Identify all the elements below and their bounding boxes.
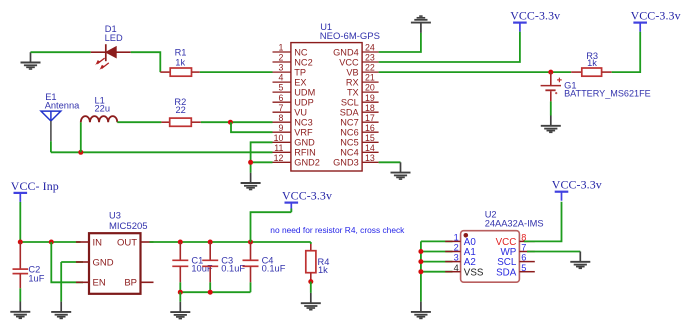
wire antenna pin down — [50, 141, 52, 152]
ground (below U3 GND) — [51, 302, 71, 319]
svg-text:4: 4 — [454, 263, 459, 273]
svg-text:RX: RX — [346, 77, 359, 87]
U1 pin 3 TP — [273, 63, 307, 78]
svg-text:0.1uF: 0.1uF — [262, 264, 286, 274]
U3 pin IN — [76, 237, 102, 248]
U1 pin 20 TX — [347, 83, 379, 98]
svg-text:21: 21 — [365, 73, 375, 83]
svg-text:UDM: UDM — [294, 87, 315, 97]
svg-text:5: 5 — [521, 263, 526, 273]
svg-text:NC5: NC5 — [340, 138, 358, 148]
ground (below R4) — [301, 293, 321, 310]
wire U1 pin 24 to ground — [379, 33, 421, 52]
wire U2 pin 1 — [421, 240, 453, 242]
wire R4 to ground — [310, 282, 312, 293]
wire U2 pin 2 — [421, 251, 453, 253]
svg-text:1k: 1k — [175, 57, 185, 67]
svg-text:EX: EX — [294, 77, 306, 87]
svg-text:15: 15 — [365, 133, 375, 143]
U3 pin BP — [124, 278, 153, 289]
U1 pin 23 VCC — [339, 53, 378, 68]
svg-text:2: 2 — [278, 53, 283, 63]
svg-text:R1: R1 — [175, 47, 187, 57]
U1 pin 17 NC7 — [340, 113, 378, 128]
U1 pin 6 UDP — [273, 93, 314, 108]
U1 pin 14 NC4 — [340, 143, 378, 158]
svg-text:NEO-6M-GPS: NEO-6M-GPS — [320, 31, 380, 42]
svg-text:18: 18 — [365, 103, 375, 113]
junction bus pin 3 — [418, 259, 423, 264]
wire junction up to L1 — [80, 122, 82, 152]
U2 pin 1 A0 — [445, 233, 476, 249]
svg-text:GND4: GND4 — [333, 47, 359, 57]
svg-text:20: 20 — [365, 83, 375, 93]
svg-text:GND: GND — [294, 138, 315, 148]
U1 pin 8 NC3 — [273, 113, 313, 128]
junction battery node — [548, 70, 553, 75]
svg-text:IN: IN — [93, 237, 103, 248]
U2 pin 5 SDA — [496, 263, 535, 279]
svg-text:17: 17 — [365, 113, 375, 123]
svg-text:23: 23 — [365, 53, 375, 63]
wire U1 pin 10 to ground bus — [251, 142, 273, 172]
wire input rail to U3 IN — [20, 241, 80, 243]
svg-text:LED: LED — [105, 33, 123, 43]
memory U2 24AA32A-IMS body — [461, 231, 520, 283]
svg-text:BP: BP — [124, 278, 137, 289]
svg-text:1: 1 — [454, 233, 459, 243]
svg-text:6: 6 — [521, 253, 526, 263]
svg-text:VCC-3.3v: VCC-3.3v — [552, 178, 602, 192]
wire U1 pin 12 to ground bus — [251, 161, 273, 163]
junction R4 bottom — [308, 279, 313, 284]
power flag VCC-3.3v (pin 23) — [510, 9, 560, 32]
svg-text:UDP: UDP — [294, 98, 313, 108]
U1 pin 24 GND4 — [333, 43, 378, 58]
wire U1 pin 22 to R3 — [379, 71, 572, 73]
ground (inverted, above U1) — [411, 16, 431, 33]
wire U2 pin 4 — [421, 271, 453, 273]
U1 pin 12 GND2 — [273, 153, 320, 168]
svg-text:NC: NC — [294, 47, 308, 57]
op-amp U1 NEO-6M-GPS body — [291, 43, 362, 171]
svg-text:16: 16 — [365, 123, 375, 133]
svg-text:22u: 22u — [95, 104, 111, 114]
capacitor C4 — [243, 242, 259, 282]
power flag VCC-3.3v (R3) — [631, 9, 681, 32]
svg-text:7: 7 — [521, 243, 526, 253]
wire rail to R4 — [310, 242, 312, 244]
ground (below C2) — [10, 302, 30, 319]
svg-text:10: 10 — [274, 133, 284, 143]
capacitor C2 — [13, 242, 29, 288]
svg-text:13: 13 — [365, 153, 375, 163]
junction R2 output node — [228, 120, 233, 125]
wire U3 GND — [61, 261, 83, 263]
svg-text:VCC-3.3v: VCC-3.3v — [510, 9, 560, 23]
U1 pin 1 NC — [273, 43, 308, 58]
battery G1 — [541, 72, 562, 101]
svg-text:VCC- Inp: VCC- Inp — [11, 179, 59, 193]
wire ground to D1 anode — [31, 51, 91, 53]
U3 pin OUT — [117, 237, 154, 248]
ground (right of U2) — [570, 252, 590, 269]
wire bottom cap rail — [180, 291, 250, 293]
U1 pin 16 NC6 — [340, 123, 378, 138]
U1 pin 18 SDA — [340, 103, 379, 118]
svg-text:SCL: SCL — [341, 98, 359, 108]
wire flag stem — [290, 209, 292, 213]
capacitor C3 — [202, 242, 218, 282]
wire to U3 EN — [51, 242, 83, 282]
svg-text:VRF: VRF — [294, 128, 313, 138]
U3 pin EN — [76, 278, 106, 289]
svg-text:NC6: NC6 — [340, 128, 358, 138]
wire R1 to U1 pin 3 — [200, 71, 273, 73]
regulator U3 MIC5205 body — [89, 233, 141, 294]
svg-text:22: 22 — [176, 105, 186, 115]
wire U2 pin 8 to VCC-3.3v — [524, 202, 562, 242]
svg-text:3: 3 — [278, 63, 283, 73]
U1 pin 11 RFIN — [273, 143, 316, 158]
svg-text:VSS: VSS — [464, 267, 484, 278]
svg-text:TX: TX — [347, 87, 359, 97]
svg-text:2: 2 — [454, 243, 459, 253]
svg-text:RFIN: RFIN — [294, 148, 315, 158]
wire R3 to VCC-3.3v — [612, 32, 641, 73]
svg-text:1: 1 — [278, 43, 283, 53]
svg-text:EN: EN — [93, 278, 106, 289]
U1 pin 21 RX — [346, 73, 379, 88]
U2 pin 4 VSS — [445, 263, 484, 279]
svg-text:0.1uF: 0.1uF — [221, 264, 245, 274]
svg-text:NC2: NC2 — [294, 57, 312, 67]
resistor R1 — [160, 68, 200, 76]
U1 pin 5 UDM — [273, 83, 316, 98]
junction ground bus — [248, 160, 253, 165]
svg-text:GND2: GND2 — [294, 158, 320, 168]
junction antenna/L1 node — [78, 150, 83, 155]
junction C1 bottom — [178, 290, 183, 295]
svg-text:11: 11 — [274, 143, 283, 153]
ground (below G1) — [541, 116, 561, 133]
resistor R2 — [161, 118, 200, 126]
svg-text:14: 14 — [365, 143, 375, 153]
svg-text:5: 5 — [278, 83, 283, 93]
U1 pin 4 EX — [273, 73, 307, 88]
svg-text:VB: VB — [346, 67, 358, 77]
U1 pin 19 SCL — [341, 93, 379, 108]
wire OUT rail — [150, 241, 311, 243]
svg-text:VCC: VCC — [339, 57, 359, 67]
U1 pin 13 GND3 — [333, 153, 378, 168]
svg-text:12: 12 — [274, 153, 284, 163]
ground (left of D1) — [21, 52, 41, 69]
wire C2 to ground — [19, 288, 21, 301]
wire branch to U1 pin 9 — [231, 122, 273, 132]
wire U3 GND down — [60, 262, 62, 302]
ground (right of U1 pin 13) — [391, 162, 411, 179]
svg-text:NC7: NC7 — [340, 118, 358, 128]
svg-text:no need for resistor R4, cross: no need for resistor R4, cross check — [270, 225, 405, 235]
svg-text:3: 3 — [454, 253, 459, 263]
svg-text:1uF: 1uF — [28, 273, 44, 283]
ground (below U2 bus) — [411, 302, 431, 319]
resistor R4 — [306, 244, 316, 282]
svg-text:VU: VU — [294, 108, 307, 118]
svg-text:1k: 1k — [587, 58, 597, 68]
U1 pin 15 NC5 — [340, 133, 378, 148]
svg-text:Antenna: Antenna — [45, 101, 80, 111]
U2 pin 2 A1 — [445, 243, 476, 259]
svg-text:VCC-3.3v: VCC-3.3v — [631, 9, 681, 23]
wire U1 pin 23 to VCC-3.3v — [379, 32, 520, 62]
ground (below C1) — [170, 302, 190, 319]
junction C4/VCC top — [248, 240, 253, 245]
U1 pin 7 VU — [273, 103, 308, 118]
wire C4 bottom — [250, 282, 252, 292]
U2 pin 3 A2 — [445, 253, 476, 269]
svg-text:6: 6 — [278, 93, 283, 103]
power flag VCC- Inp — [11, 179, 59, 202]
svg-text:GND: GND — [93, 257, 114, 268]
svg-text:BATTERY_MS621FE: BATTERY_MS621FE — [564, 88, 651, 98]
wire C3 bottom — [209, 282, 211, 292]
svg-text:7: 7 — [278, 103, 283, 113]
wire L1 to R2 — [117, 121, 161, 123]
U2 pin 1 marker — [464, 233, 469, 238]
svg-text:VCC-3.3v: VCC-3.3v — [282, 189, 332, 203]
junction C3 bottom — [208, 290, 213, 295]
svg-text:9: 9 — [278, 123, 283, 133]
svg-text:8: 8 — [278, 113, 283, 123]
power flag VCC-3.3v (U2) — [552, 178, 602, 201]
wire R2 to U1 pin 8 — [201, 121, 273, 123]
junction EN node — [49, 240, 54, 245]
U1 pin 22 VB — [346, 63, 378, 78]
junction bus pin 4 — [418, 269, 423, 274]
inductor L1 22u — [81, 116, 117, 122]
wire U2 pin 3 — [421, 261, 453, 263]
junction C3 top — [208, 240, 213, 245]
wire VCC- Inp down — [19, 202, 21, 242]
LED D1 — [91, 44, 131, 70]
svg-text:24AA32A-IMS: 24AA32A-IMS — [485, 219, 544, 229]
svg-text:GND3: GND3 — [333, 158, 359, 168]
U2 pin 8 VCC — [496, 233, 535, 249]
antenna E1 — [41, 111, 61, 141]
U1 pin 10 GND — [273, 133, 316, 148]
svg-text:4: 4 — [278, 73, 283, 83]
wire U2 pin 7 to ground — [527, 251, 580, 253]
svg-text:OUT: OUT — [117, 237, 137, 248]
U1 pin 2 NC2 — [273, 53, 313, 68]
junction C2 node — [18, 240, 23, 245]
svg-text:24: 24 — [365, 43, 375, 53]
U3 pin GND — [76, 257, 114, 268]
U2 pin 7 WP — [501, 243, 535, 259]
wire C1 bottom — [179, 282, 181, 292]
svg-text:1k: 1k — [318, 265, 328, 275]
U2 pin 6 SCL — [497, 253, 535, 269]
svg-text:NC3: NC3 — [294, 118, 312, 128]
svg-text:22: 22 — [365, 63, 375, 73]
svg-text:TP: TP — [294, 67, 306, 77]
U1 pin 9 VRF — [273, 123, 314, 138]
svg-text:SDA: SDA — [340, 108, 360, 118]
wire U2 address bus — [420, 241, 422, 301]
wire antenna row to U1 pin 11 — [51, 151, 273, 153]
resistor R3 — [571, 68, 612, 76]
svg-text:MIC5205: MIC5205 — [109, 221, 148, 232]
svg-text:SDA: SDA — [496, 267, 517, 278]
wire cap rail to ground — [179, 292, 181, 302]
power flag VCC-3.3v (output rail) — [282, 189, 332, 212]
ground (below U1 pin 12) — [241, 173, 261, 190]
wire VCC-3.3v to rail — [251, 212, 292, 242]
wire U1 pin 13 to ground — [379, 161, 401, 163]
capacitor C1 — [172, 242, 188, 282]
wire D1 cathode to R1 — [131, 52, 161, 72]
junction bus pin 2 — [418, 249, 423, 254]
svg-text:U3: U3 — [109, 211, 121, 221]
svg-text:NC4: NC4 — [340, 148, 358, 158]
svg-text:19: 19 — [365, 93, 375, 103]
junction C1 top — [178, 240, 183, 245]
wire battery to ground — [550, 101, 552, 115]
